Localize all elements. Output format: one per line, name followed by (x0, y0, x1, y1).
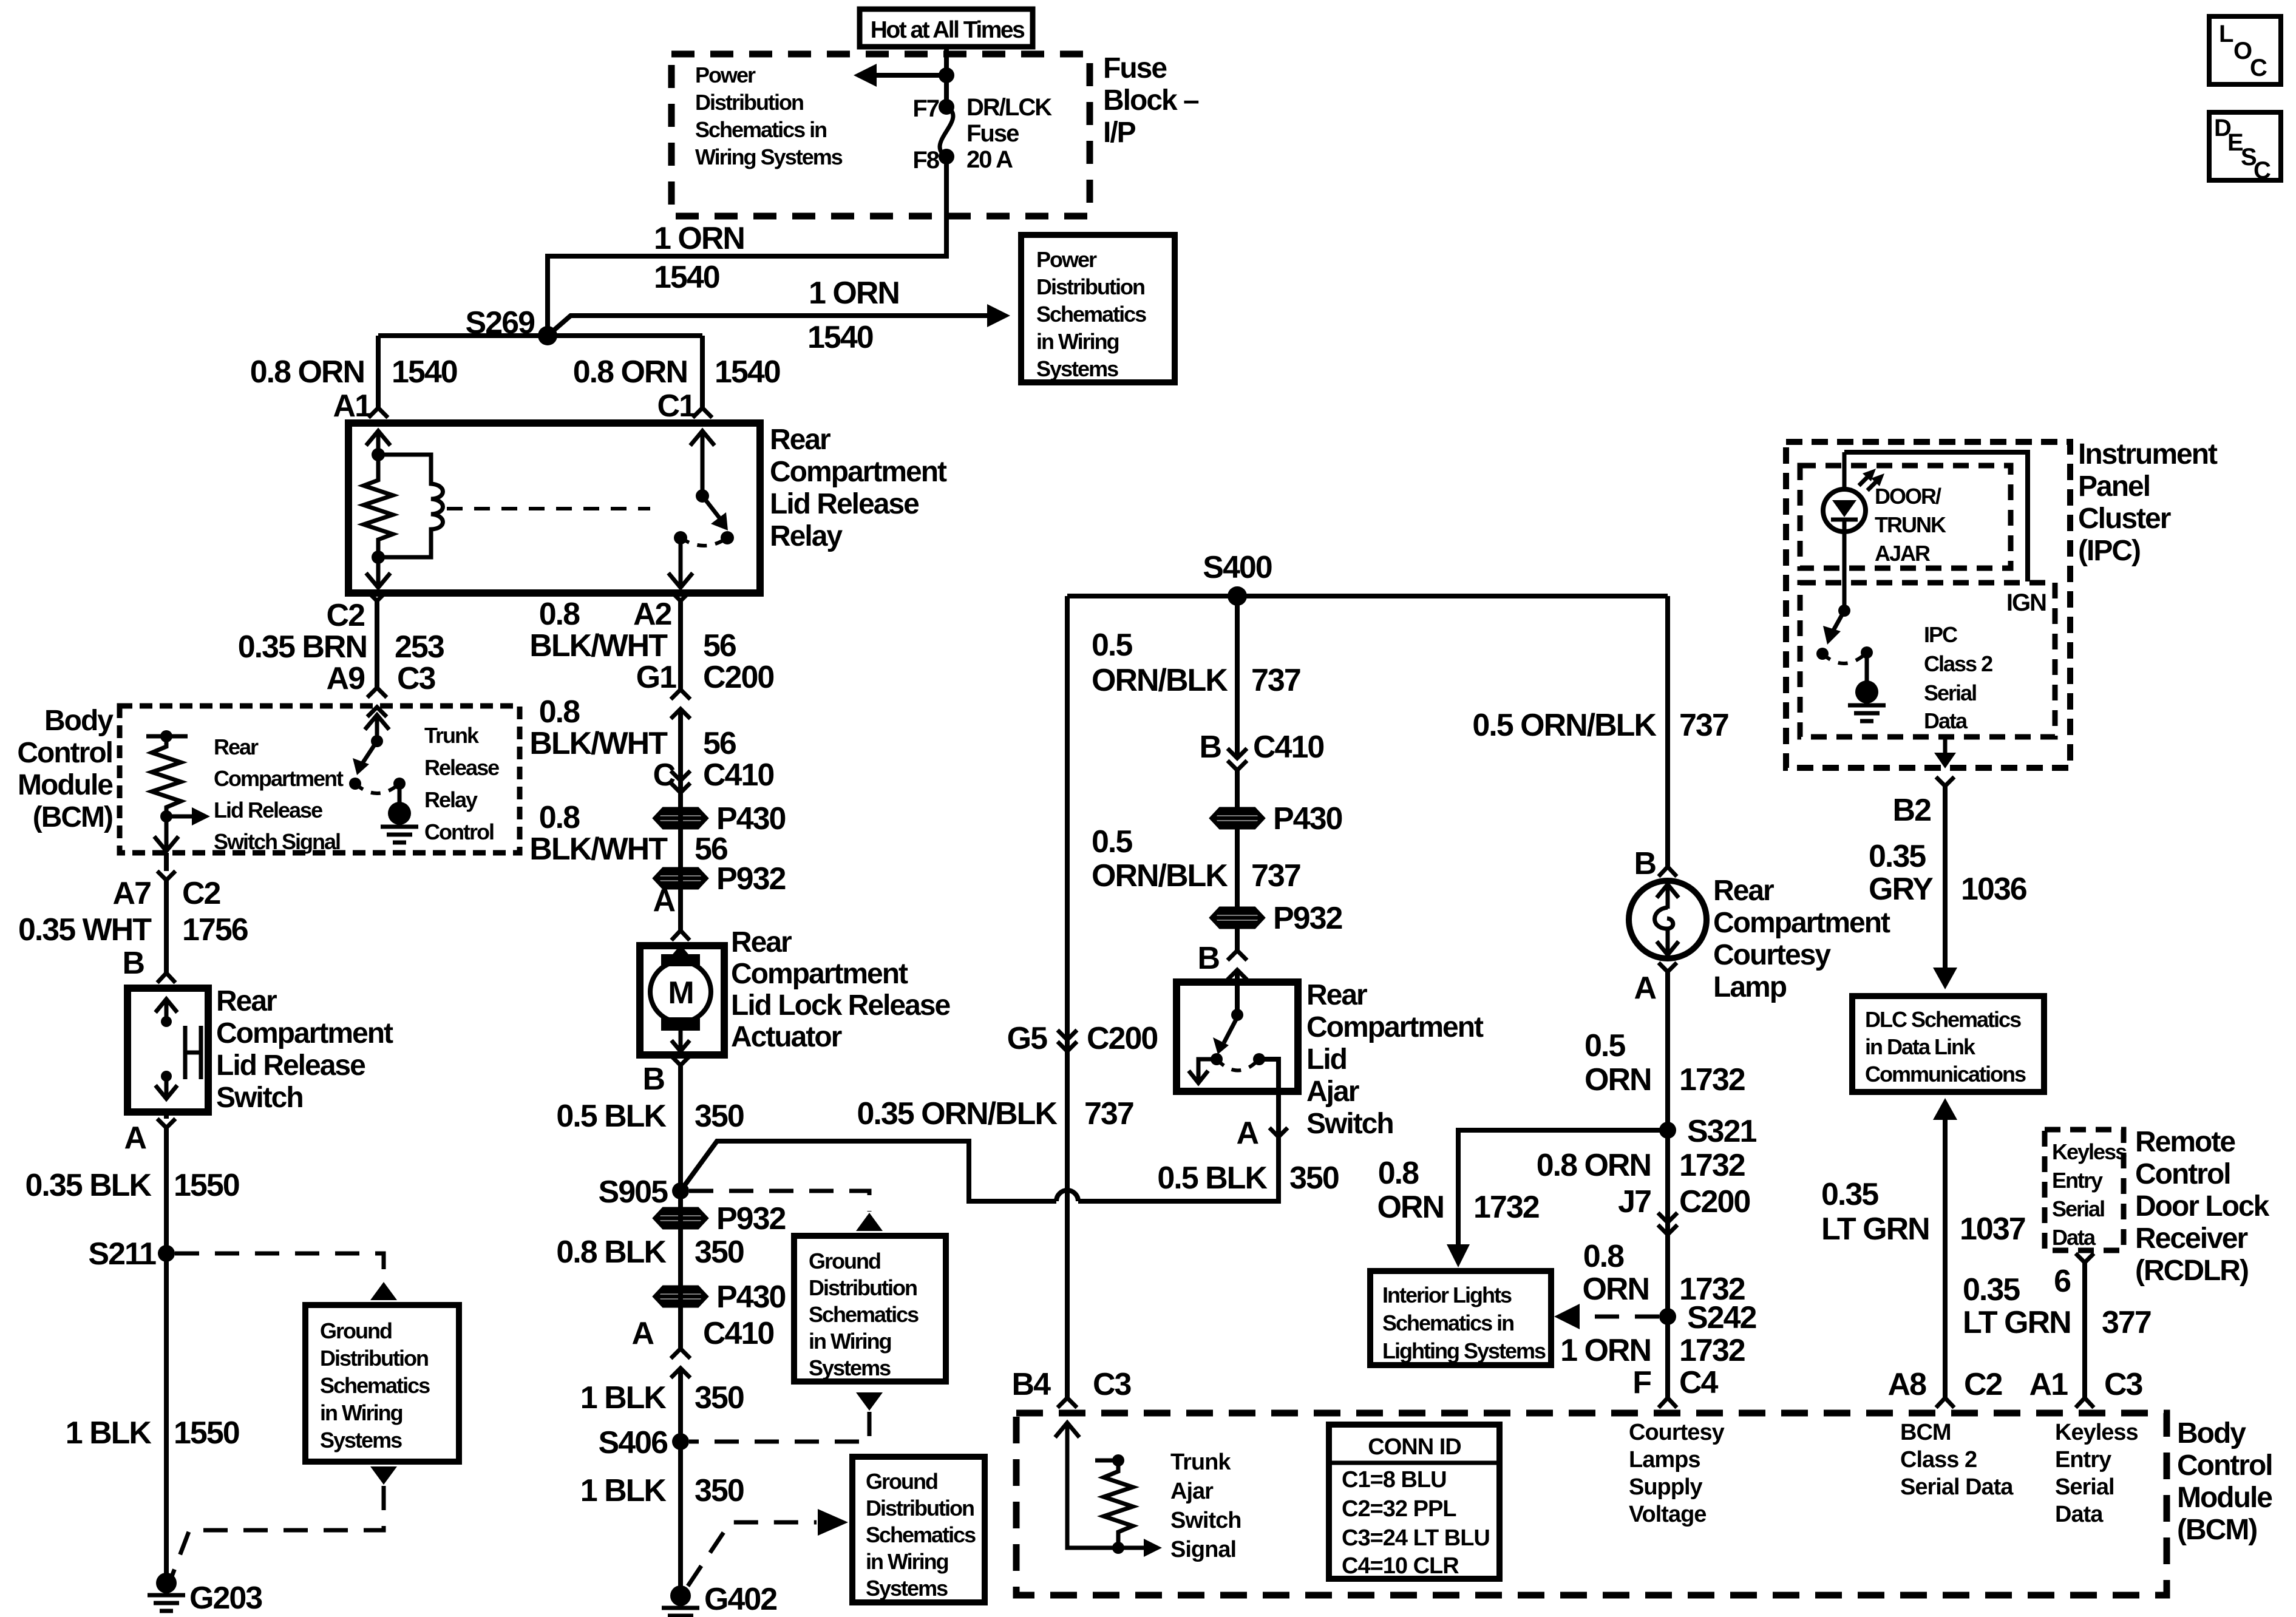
svg-text:0.35: 0.35 (1869, 839, 1926, 874)
dashed reference arrowhead up (middle box top) (856, 1213, 883, 1231)
relay pin A2 internal arrow (down) (668, 538, 693, 588)
label A1 C3 (2029, 1367, 2143, 1402)
IPC switch feed wire (1843, 532, 1847, 611)
svg-text:Distribution: Distribution (809, 1275, 917, 1300)
svg-text:1540: 1540 (392, 354, 457, 390)
svg-text:0.8: 0.8 (1583, 1239, 1624, 1274)
svg-text:1037: 1037 (1960, 1212, 2025, 1247)
svg-text:737: 737 (1679, 708, 1728, 743)
svg-text:Power: Power (695, 63, 756, 87)
pin chevron A (lamp) (1659, 963, 1677, 972)
svg-text:C3=24 LT BLU: C3=24 LT BLU (1342, 1525, 1490, 1551)
svg-text:Control: Control (2177, 1449, 2272, 1482)
svg-text:(BCM): (BCM) (33, 801, 112, 833)
dashed reference arrowhead right (into bottom ground box) (818, 1509, 848, 1536)
svg-text:Compartment: Compartment (1713, 907, 1890, 939)
svg-text:0.8: 0.8 (539, 800, 580, 835)
svg-text:6: 6 (2054, 1264, 2071, 1299)
svg-text:Schematics in: Schematics in (1382, 1310, 1513, 1335)
relay pin C2 internal arrow (down) (366, 557, 390, 588)
svg-text:0.35: 0.35 (1963, 1272, 2020, 1307)
pin chevron A (ajar switch) (1269, 1128, 1288, 1137)
connector B double chevron (ajar chain) (1228, 951, 1247, 980)
LOC box (2209, 16, 2281, 84)
svg-text:S406: S406 (599, 1425, 668, 1460)
wire S269 horizontal to A1 and C1 branches (378, 333, 702, 338)
IPC class 2 serial data dashed box (1800, 583, 2055, 737)
IPC serial data output arrow (1934, 737, 1956, 768)
lid release switch contact node bottom (161, 1071, 172, 1082)
svg-text:Panel: Panel (2078, 470, 2150, 503)
svg-text:Communications: Communications (1865, 1062, 2026, 1086)
BCM lid release resistor top node (160, 730, 172, 742)
label 0.5 ORN/BLK 737 (left branch upper) (1092, 628, 1300, 698)
svg-text:1 ORN: 1 ORN (1560, 1333, 1651, 1368)
ajar switch left contact node (1211, 1053, 1223, 1065)
ground G402 dot (670, 1585, 691, 1606)
dashed reference wire S905 to ground distribution box (middle) (689, 1191, 869, 1212)
pin chevron B (157, 973, 175, 983)
label 0.35 WHT 1756 (18, 912, 248, 947)
svg-text:B2: B2 (1893, 793, 1931, 828)
BCM switch signal arrow right (166, 807, 210, 825)
svg-text:1550: 1550 (174, 1168, 239, 1203)
dashed reference arrowhead (down) below left ground box (370, 1466, 397, 1485)
svg-text:0.35 BLK: 0.35 BLK (25, 1168, 152, 1203)
label 1 ORN 1540 (fuse output) (654, 221, 744, 295)
svg-text:C2: C2 (327, 598, 365, 633)
label 0.8 ORN 1732 (interior lights feed) (1377, 1156, 1538, 1225)
label Courtesy Lamps Supply Voltage (1629, 1420, 1725, 1527)
IPC switch pivot node (1838, 605, 1850, 617)
Ground Distribution Schematics box (middle) (794, 1236, 946, 1381)
wire S400 center branch down (1235, 596, 1240, 758)
DOOR/TRUNK AJAR dashed box (1800, 466, 2011, 568)
wire A1 branch down (376, 336, 381, 408)
label G5 C200 (1007, 1021, 1158, 1056)
ajar switch arm with arrowhead (1213, 1016, 1238, 1054)
svg-text:Switch Signal: Switch Signal (214, 829, 340, 854)
label 0.35 BRN 253 (238, 629, 444, 665)
IPC ignition feed solid outline (1844, 452, 2028, 581)
pin chevron A (actuator) (671, 931, 690, 940)
svg-text:A8: A8 (1888, 1367, 1927, 1402)
svg-text:F7: F7 (912, 95, 939, 122)
svg-text:Keyless: Keyless (2052, 1139, 2127, 1164)
svg-text:DOOR/: DOOR/ (1875, 484, 1941, 509)
LED light rays (1859, 469, 1884, 490)
IPC switch dashed arc (1822, 653, 1867, 663)
svg-text:IPC: IPC (1924, 622, 1958, 647)
svg-text:1756: 1756 (182, 912, 248, 947)
svg-text:Lamps: Lamps (1629, 1447, 1700, 1473)
lid release switch plunger symbol (185, 1026, 201, 1079)
svg-text:Fuse: Fuse (1103, 52, 1167, 84)
svg-text:C3: C3 (1093, 1367, 1132, 1402)
svg-text:Compartment: Compartment (731, 958, 908, 990)
label C C410 (653, 758, 773, 793)
connector A/C410 double chevron (ground chain) (671, 1349, 690, 1378)
svg-text:C2: C2 (182, 876, 220, 911)
relay coil (parallel branch) (378, 455, 443, 557)
relay switch fixed contact node (674, 531, 687, 544)
svg-text:Cluster: Cluster (2078, 503, 2171, 535)
wire BCM A7 to lid release switch (164, 853, 169, 973)
wire ajar switch A down (0.5 BLK 350) (1276, 1091, 1281, 1134)
svg-text:C4=10 CLR: C4=10 CLR (1342, 1553, 1459, 1579)
connector B/C410 arrow and chevron (1228, 748, 1247, 770)
svg-text:Serial: Serial (1924, 680, 1976, 705)
svg-text:Lid: Lid (1306, 1043, 1347, 1076)
Keyless Entry Serial Data dashed box (2045, 1130, 2124, 1250)
svg-text:P430: P430 (716, 1280, 786, 1315)
relay switch pivot node (696, 489, 709, 503)
svg-text:Compartment: Compartment (770, 456, 947, 488)
label 0.8 ORN 1732 (S321 down) (1537, 1148, 1745, 1183)
label Rear Compartment Lid Release Relay (770, 424, 947, 552)
svg-text:Ground: Ground (866, 1469, 937, 1494)
IPC switch right contact node (1861, 646, 1873, 659)
svg-text:A: A (1634, 971, 1656, 1006)
relay box: Rear Compartment Lid Release Relay (348, 423, 760, 593)
svg-text:1 ORN: 1 ORN (809, 276, 899, 311)
svg-text:Rear: Rear (1306, 979, 1367, 1011)
svg-text:Schematics: Schematics (809, 1302, 919, 1327)
svg-text:A7: A7 (113, 876, 151, 911)
wire P932 to lid ajar switch (1235, 928, 1240, 1015)
CONN ID table (1329, 1425, 1500, 1579)
BCM lid release resistor (152, 736, 181, 816)
svg-text:O: O (2233, 38, 2252, 64)
svg-text:253: 253 (395, 629, 444, 665)
svg-text:G402: G402 (704, 1582, 776, 1617)
label 0.35 LT GRN 1037 (1821, 1177, 2025, 1247)
svg-text:Block –: Block – (1103, 84, 1199, 117)
svg-text:LT GRN: LT GRN (1821, 1212, 1929, 1247)
svg-text:1540: 1540 (654, 260, 719, 295)
svg-text:Control: Control (17, 737, 112, 769)
svg-text:Wiring Systems: Wiring Systems (695, 144, 843, 169)
label 0.35 BLK 1550 (25, 1168, 239, 1203)
svg-text:C2=32 PPL: C2=32 PPL (1342, 1496, 1456, 1522)
wire from Hot at All Times into fuse block (944, 46, 949, 106)
label DR/LCK Fuse 20 A (966, 94, 1052, 173)
connector A9/C3 double chevron (367, 688, 387, 717)
dashed reference wire to S406 (689, 1412, 869, 1442)
pin chevron A (lid release switch) (157, 1119, 175, 1128)
svg-text:Entry: Entry (2055, 1447, 2111, 1473)
svg-text:Switch: Switch (1170, 1508, 1241, 1533)
trunk ajar resistor top node (1112, 1454, 1124, 1466)
Hot at All Times box (860, 9, 1033, 47)
svg-text:Systems: Systems (866, 1576, 948, 1601)
pin chevron C2 (368, 592, 386, 601)
wire between P430 and P932 (ajar chain) (1235, 828, 1240, 907)
svg-text:Rear: Rear (770, 424, 830, 456)
label IPC Class 2 Serial Data (1924, 622, 1992, 733)
dashed reference wire S211 to ground distribution box (175, 1253, 384, 1281)
svg-text:1 BLK: 1 BLK (580, 1380, 667, 1415)
svg-text:Compartment: Compartment (1306, 1011, 1484, 1043)
pin chevron A1 (2076, 1398, 2094, 1408)
svg-text:ORN/BLK: ORN/BLK (1092, 858, 1228, 893)
svg-text:Ajar: Ajar (1170, 1479, 1214, 1504)
label Body Control Module (BCM) (17, 705, 114, 833)
svg-text:in Wiring: in Wiring (320, 1400, 402, 1425)
svg-text:G1: G1 (636, 660, 676, 695)
svg-text:CONN ID: CONN ID (1368, 1434, 1461, 1460)
svg-text:Actuator: Actuator (731, 1021, 842, 1053)
label 0.8 ORN 1540 (C1) (573, 354, 780, 390)
svg-text:Systems: Systems (809, 1355, 891, 1380)
svg-text:C4: C4 (1679, 1365, 1719, 1400)
dashed reference arrowhead (up) (370, 1282, 397, 1300)
relay switch moving contact node (721, 531, 734, 544)
node at fuse feed (939, 67, 954, 83)
relay pin C1 internal arrow (690, 431, 715, 496)
svg-text:C2: C2 (1964, 1367, 2002, 1402)
svg-text:Supply: Supply (1629, 1474, 1703, 1500)
svg-text:Entry: Entry (2052, 1168, 2103, 1193)
svg-text:Control: Control (2135, 1158, 2230, 1190)
motor circle M (650, 961, 711, 1022)
connector A7/C2 chevron (157, 871, 175, 880)
svg-text:56: 56 (703, 726, 736, 761)
svg-text:0.8 ORN: 0.8 ORN (250, 354, 364, 390)
label A C410 (ground chain) (631, 1316, 773, 1351)
trunk ajar signal arrow right (1118, 1539, 1162, 1557)
motor brush top (661, 954, 700, 966)
svg-text:A1: A1 (333, 388, 372, 424)
ajar switch left contact wire with arrow down (1189, 1059, 1217, 1083)
label G1 C200 (636, 660, 774, 695)
svg-text:Module: Module (18, 769, 113, 801)
label 0.8 BLK/WHT 56 (to C410) (529, 694, 736, 761)
IPC ground symbol (1848, 705, 1886, 721)
svg-text:Release: Release (424, 755, 499, 780)
svg-text:A: A (653, 883, 675, 918)
svg-text:(IPC): (IPC) (2078, 535, 2140, 567)
svg-text:1 BLK: 1 BLK (66, 1415, 152, 1451)
label Rear Compartment Lid Lock Release Actuator (731, 926, 950, 1053)
trunk ajar resistor stub (1095, 1459, 1121, 1463)
BCM internal switch contact node left (349, 778, 361, 790)
label B C410 (center) (1199, 730, 1323, 765)
svg-text:Rear: Rear (216, 985, 277, 1017)
svg-text:737: 737 (1251, 858, 1300, 893)
label 0.35 LT GRN 377 (1963, 1272, 2151, 1340)
node S406 (672, 1433, 689, 1450)
Fuse Block dashed box (671, 54, 1090, 216)
svg-text:B4: B4 (1012, 1367, 1051, 1402)
BCM (bottom) dashed box (1016, 1413, 2167, 1595)
node S242 (1659, 1308, 1676, 1325)
svg-text:350: 350 (695, 1099, 744, 1134)
label 0.5 BLK 350 (ajar switch) (1157, 1161, 1338, 1196)
wire S905 to lid ajar switch A (0.35 ORN/BLK) (681, 1134, 1279, 1201)
label Remote Control Door Lock Receiver (RCDLR) (2135, 1126, 2270, 1287)
relay actuation dashed link (447, 507, 650, 510)
label 0.5 ORN 1732 (1584, 1028, 1745, 1097)
label 0.8 A2 (539, 597, 671, 632)
wire S400 bus (1067, 594, 1668, 598)
pin chevron B (lamp) (1659, 867, 1677, 876)
grommet P430 (ajar chain) (1212, 809, 1263, 827)
svg-text:0.5 ORN/BLK: 0.5 ORN/BLK (1472, 708, 1657, 743)
grommet P430 (ground chain) (655, 1287, 706, 1306)
svg-text:Relay: Relay (424, 787, 478, 812)
svg-text:C3: C3 (397, 661, 436, 696)
label Trunk Ajar Switch Signal (1170, 1449, 1241, 1562)
svg-text:0.8: 0.8 (539, 597, 580, 632)
svg-text:Remote: Remote (2135, 1126, 2235, 1158)
label BLK/WHT 56 (A2) (529, 628, 736, 663)
node S400 (1228, 586, 1247, 606)
dashed reference wire G402 to ground distribution box (bottom) (688, 1522, 817, 1586)
ajar switch right contact node (1253, 1053, 1265, 1065)
grommet P932 (ajar chain) (1212, 909, 1263, 927)
label 1 ORN 1540 (to power dist) (807, 276, 899, 355)
svg-text:Switch: Switch (1306, 1108, 1393, 1140)
ground G402 symbol (662, 1608, 699, 1617)
svg-text:C410: C410 (703, 1316, 773, 1351)
svg-text:P932: P932 (716, 861, 786, 897)
Ground Distribution Schematics box (left) (305, 1305, 459, 1462)
svg-text:Voltage: Voltage (1629, 1502, 1706, 1527)
BCM pin A7 internal arrow down (154, 816, 178, 851)
svg-text:DLC Schematics: DLC Schematics (1865, 1007, 2021, 1032)
svg-text:C: C (2254, 157, 2271, 184)
svg-text:Rear: Rear (731, 926, 792, 958)
svg-text:J7: J7 (1618, 1184, 1651, 1219)
node S211 (158, 1245, 175, 1262)
ajar switch right contact wire to pin A (1259, 1059, 1279, 1091)
DESC box (2209, 112, 2281, 184)
svg-text:ORN: ORN (1582, 1272, 1649, 1307)
IPC switch left contact node (1816, 648, 1829, 660)
relay coil top node (372, 448, 385, 461)
svg-text:(BCM): (BCM) (2177, 1514, 2257, 1546)
svg-text:Interior Lights: Interior Lights (1382, 1283, 1512, 1307)
svg-text:Compartment: Compartment (216, 1017, 393, 1049)
svg-text:C410: C410 (703, 758, 773, 793)
svg-text:Data: Data (2052, 1225, 2096, 1250)
label 0.8 ORN 1732 (above S242) (1582, 1239, 1744, 1307)
svg-text:C200: C200 (703, 660, 773, 695)
label A7 C2 (113, 876, 220, 911)
lid release switch contact node top (161, 1016, 172, 1027)
label 0.8 BLK/WHT 56 (below P430) (529, 800, 728, 867)
Rear Compartment Lid Release Switch box (127, 988, 208, 1112)
BCM trunk release relay control internal arrow up (365, 715, 389, 741)
pin chevron B (actuator bottom) (671, 1056, 690, 1065)
wire lamp A down to S321 (1665, 972, 1670, 1398)
svg-text:1732: 1732 (1679, 1062, 1745, 1097)
svg-text:1550: 1550 (174, 1415, 239, 1451)
svg-text:Door Lock: Door Lock (2135, 1190, 2270, 1222)
svg-text:Distribution: Distribution (1036, 274, 1144, 299)
label: Power Distribution Schematics in Wiring Systems (fuse block) (695, 63, 843, 169)
grommet P932 (left chain) (655, 869, 706, 887)
svg-text:P932: P932 (716, 1201, 786, 1236)
svg-text:Ground: Ground (320, 1318, 392, 1343)
svg-text:S211: S211 (88, 1236, 156, 1272)
label J7 C200 (1618, 1184, 1750, 1219)
DLC Schematics box (1852, 996, 2044, 1092)
svg-text:Schematics: Schematics (866, 1522, 976, 1547)
wire S321 left and down to interior lights arrow (1458, 1130, 1668, 1248)
pin chevron B4 (1058, 1398, 1077, 1408)
svg-text:A: A (124, 1120, 146, 1156)
svg-text:in Wiring: in Wiring (1036, 329, 1119, 354)
wire C1 branch down (700, 336, 705, 408)
label 0.35 GRY 1036 (1869, 839, 2027, 907)
svg-text:C: C (2250, 55, 2267, 81)
svg-text:C200: C200 (1679, 1184, 1750, 1219)
svg-text:Body: Body (44, 705, 114, 737)
svg-text:ORN: ORN (1584, 1062, 1651, 1097)
indicator LED symbol (1823, 452, 1866, 532)
svg-text:B: B (1197, 941, 1219, 976)
BCM internal switch dashed arc (355, 784, 399, 793)
svg-text:Receiver: Receiver (2135, 1222, 2247, 1255)
label 0.5 ORN/BLK 737 (ajar chain) (1092, 824, 1300, 893)
svg-text:350: 350 (1289, 1161, 1339, 1196)
ground G203 dot (156, 1573, 177, 1593)
svg-text:Systems: Systems (320, 1428, 402, 1453)
label 1 BLK 350 (above S406) (580, 1380, 744, 1415)
wire lid release switch A to S211 to G203 (164, 1112, 169, 1582)
Rear Compartment Courtesy Lamp symbol (1629, 881, 1707, 958)
BCM lid release resistor bottom node (160, 810, 172, 822)
BCM internal switch arm (353, 741, 377, 775)
wire B2 to DLC box (1943, 786, 1948, 969)
svg-text:A1: A1 (2029, 1367, 2068, 1402)
svg-text:Lid Release: Lid Release (770, 488, 919, 520)
Ground Distribution Schematics box (bottom) (852, 1457, 985, 1602)
svg-text:1 ORN: 1 ORN (654, 221, 744, 256)
dashed reference wire to G203 (172, 1486, 384, 1576)
wire C2 to BCM pin A9 (375, 601, 379, 688)
label B4 C3 (1012, 1367, 1132, 1402)
svg-text:1732: 1732 (1679, 1333, 1745, 1368)
wire hop over vertical 737 run (1056, 1190, 1078, 1201)
pin chevron B2 (1936, 777, 1954, 786)
connector C/C410 double chevron (671, 771, 690, 793)
label A8 C2 (1888, 1367, 2002, 1402)
svg-text:56: 56 (703, 628, 736, 663)
connector G1/C200 double chevron (671, 690, 690, 719)
pin chevron 6 (RCDLR) (2076, 1253, 2094, 1263)
pin chevron A1 (369, 408, 388, 418)
label A9 C3 (327, 661, 436, 696)
svg-text:1540: 1540 (715, 354, 780, 390)
label 1 BLK 350 (below S406) (580, 1473, 744, 1508)
svg-text:L: L (2219, 21, 2233, 47)
svg-text:Trunk: Trunk (424, 723, 480, 748)
svg-text:1036: 1036 (1961, 872, 2027, 907)
actuator internal arrow up (671, 948, 690, 965)
svg-text:B: B (1634, 846, 1656, 881)
svg-text:S400: S400 (1203, 550, 1272, 585)
svg-text:in Data Link: in Data Link (1865, 1034, 1976, 1059)
svg-text:0.8 ORN: 0.8 ORN (573, 354, 687, 390)
svg-text:Trunk: Trunk (1170, 1449, 1231, 1475)
svg-text:BLK/WHT: BLK/WHT (529, 628, 668, 663)
wire S269 to Power Distribution Schematics box (arrow right) (548, 304, 1010, 336)
svg-text:Switch: Switch (216, 1082, 303, 1114)
ajar switch contact dashed arc (1217, 1059, 1259, 1071)
